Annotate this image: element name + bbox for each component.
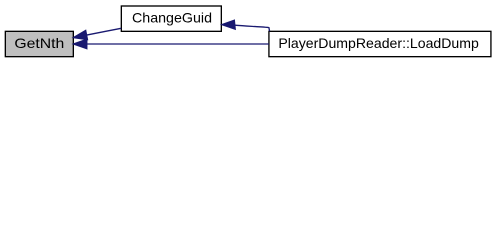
node PlayerDumpReader::LoadDump	[269, 31, 491, 56]
svg-text:ChangeGuid: ChangeGuid	[132, 10, 212, 26]
edge ChangeGuid to GetNth (wire)	[87, 28, 122, 35]
svg-text:GetNth: GetNth	[14, 35, 64, 51]
node GetNth	[5, 31, 73, 56]
arrowhead at ChangeGuid right	[222, 20, 235, 29]
edge PlayerDumpReader::LoadDump to ChangeGuid (wire)	[235, 25, 270, 31]
node ChangeGuid	[121, 6, 221, 31]
edge PlayerDumpReader::LoadDump to GetNth (wire)	[87, 43, 269, 45]
arrowhead at GetNth upper	[73, 30, 87, 39]
svg-text:PlayerDumpReader::LoadDump: PlayerDumpReader::LoadDump	[278, 35, 479, 51]
arrowhead at GetNth lower	[73, 39, 86, 48]
